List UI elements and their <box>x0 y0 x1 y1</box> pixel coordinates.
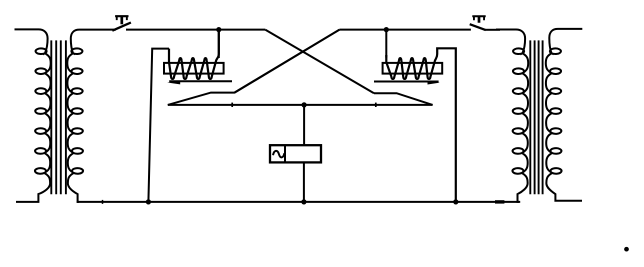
relay RY1 armature line <box>169 80 232 82</box>
center wire between relay tongues <box>168 104 433 106</box>
wire from key S2 to transformer T2 <box>486 29 501 31</box>
wire junction B down to relay coil RY2 <box>385 30 387 58</box>
relay coil RY2 bobbin box <box>383 63 443 74</box>
junction node E (bottom center) <box>301 199 306 204</box>
relay RY2 tongue lever to contact, crossover to left top wire <box>374 93 433 105</box>
relay coil RY2 winding <box>386 48 456 202</box>
transformer T1 primary winding (left, line side) <box>15 29 51 202</box>
bottom bus wire <box>77 201 520 203</box>
wire from key S1 to junction A <box>126 29 265 31</box>
junction node B (top right) <box>384 27 389 32</box>
wire relay RY1 outer lead down to bottom bus <box>148 49 169 202</box>
wire joint tick on bus <box>102 200 104 204</box>
relay RY2 armature arrow (points right) <box>428 81 440 85</box>
source box divider <box>284 145 286 162</box>
contact stud left <box>231 103 233 107</box>
junction node D (bottom left) <box>146 199 151 204</box>
transformer T2 core <box>530 40 542 194</box>
crossover wire from node B bend down to left relay contact <box>235 30 340 93</box>
transformer T2 secondary winding (left, set side) <box>496 30 528 202</box>
wire source down to bottom bus <box>303 162 305 202</box>
wire node C down to source <box>303 105 305 145</box>
wire overtrace artifact on bus <box>495 200 504 203</box>
key switch S2 knob (T handle) <box>472 15 485 22</box>
relay coil RY1 winding <box>169 32 219 79</box>
crossover wire from node A bend down to right relay contact <box>265 30 374 94</box>
relay coil RY1 bobbin box <box>164 63 224 74</box>
junction node F (bottom right) <box>453 199 458 204</box>
relay RY1 armature arrow (points left) <box>167 81 180 85</box>
junction node A (top left) <box>216 27 221 32</box>
key switch S1 knob (T handle) <box>115 15 128 24</box>
junction node C (center) <box>302 102 307 107</box>
transformer T1 core <box>51 40 66 194</box>
wire from node B to key S2 <box>339 29 471 31</box>
relay RY1 tongue lever to contact, crossover to right top wire <box>168 30 340 105</box>
key switch S2 lever <box>470 24 486 30</box>
wire junction A down to relay coil RY1 <box>218 30 220 58</box>
transformer T1 secondary winding (right, set side) <box>67 30 116 202</box>
sine symbol in source box <box>273 151 284 158</box>
caption period dot <box>624 247 629 252</box>
relay RY2 armature line <box>374 81 439 83</box>
key switch S1 lever <box>112 23 131 31</box>
source / buzzer box <box>270 145 321 162</box>
contact stud right <box>375 103 377 107</box>
transformer T2 primary winding (right, line side) <box>546 29 583 201</box>
